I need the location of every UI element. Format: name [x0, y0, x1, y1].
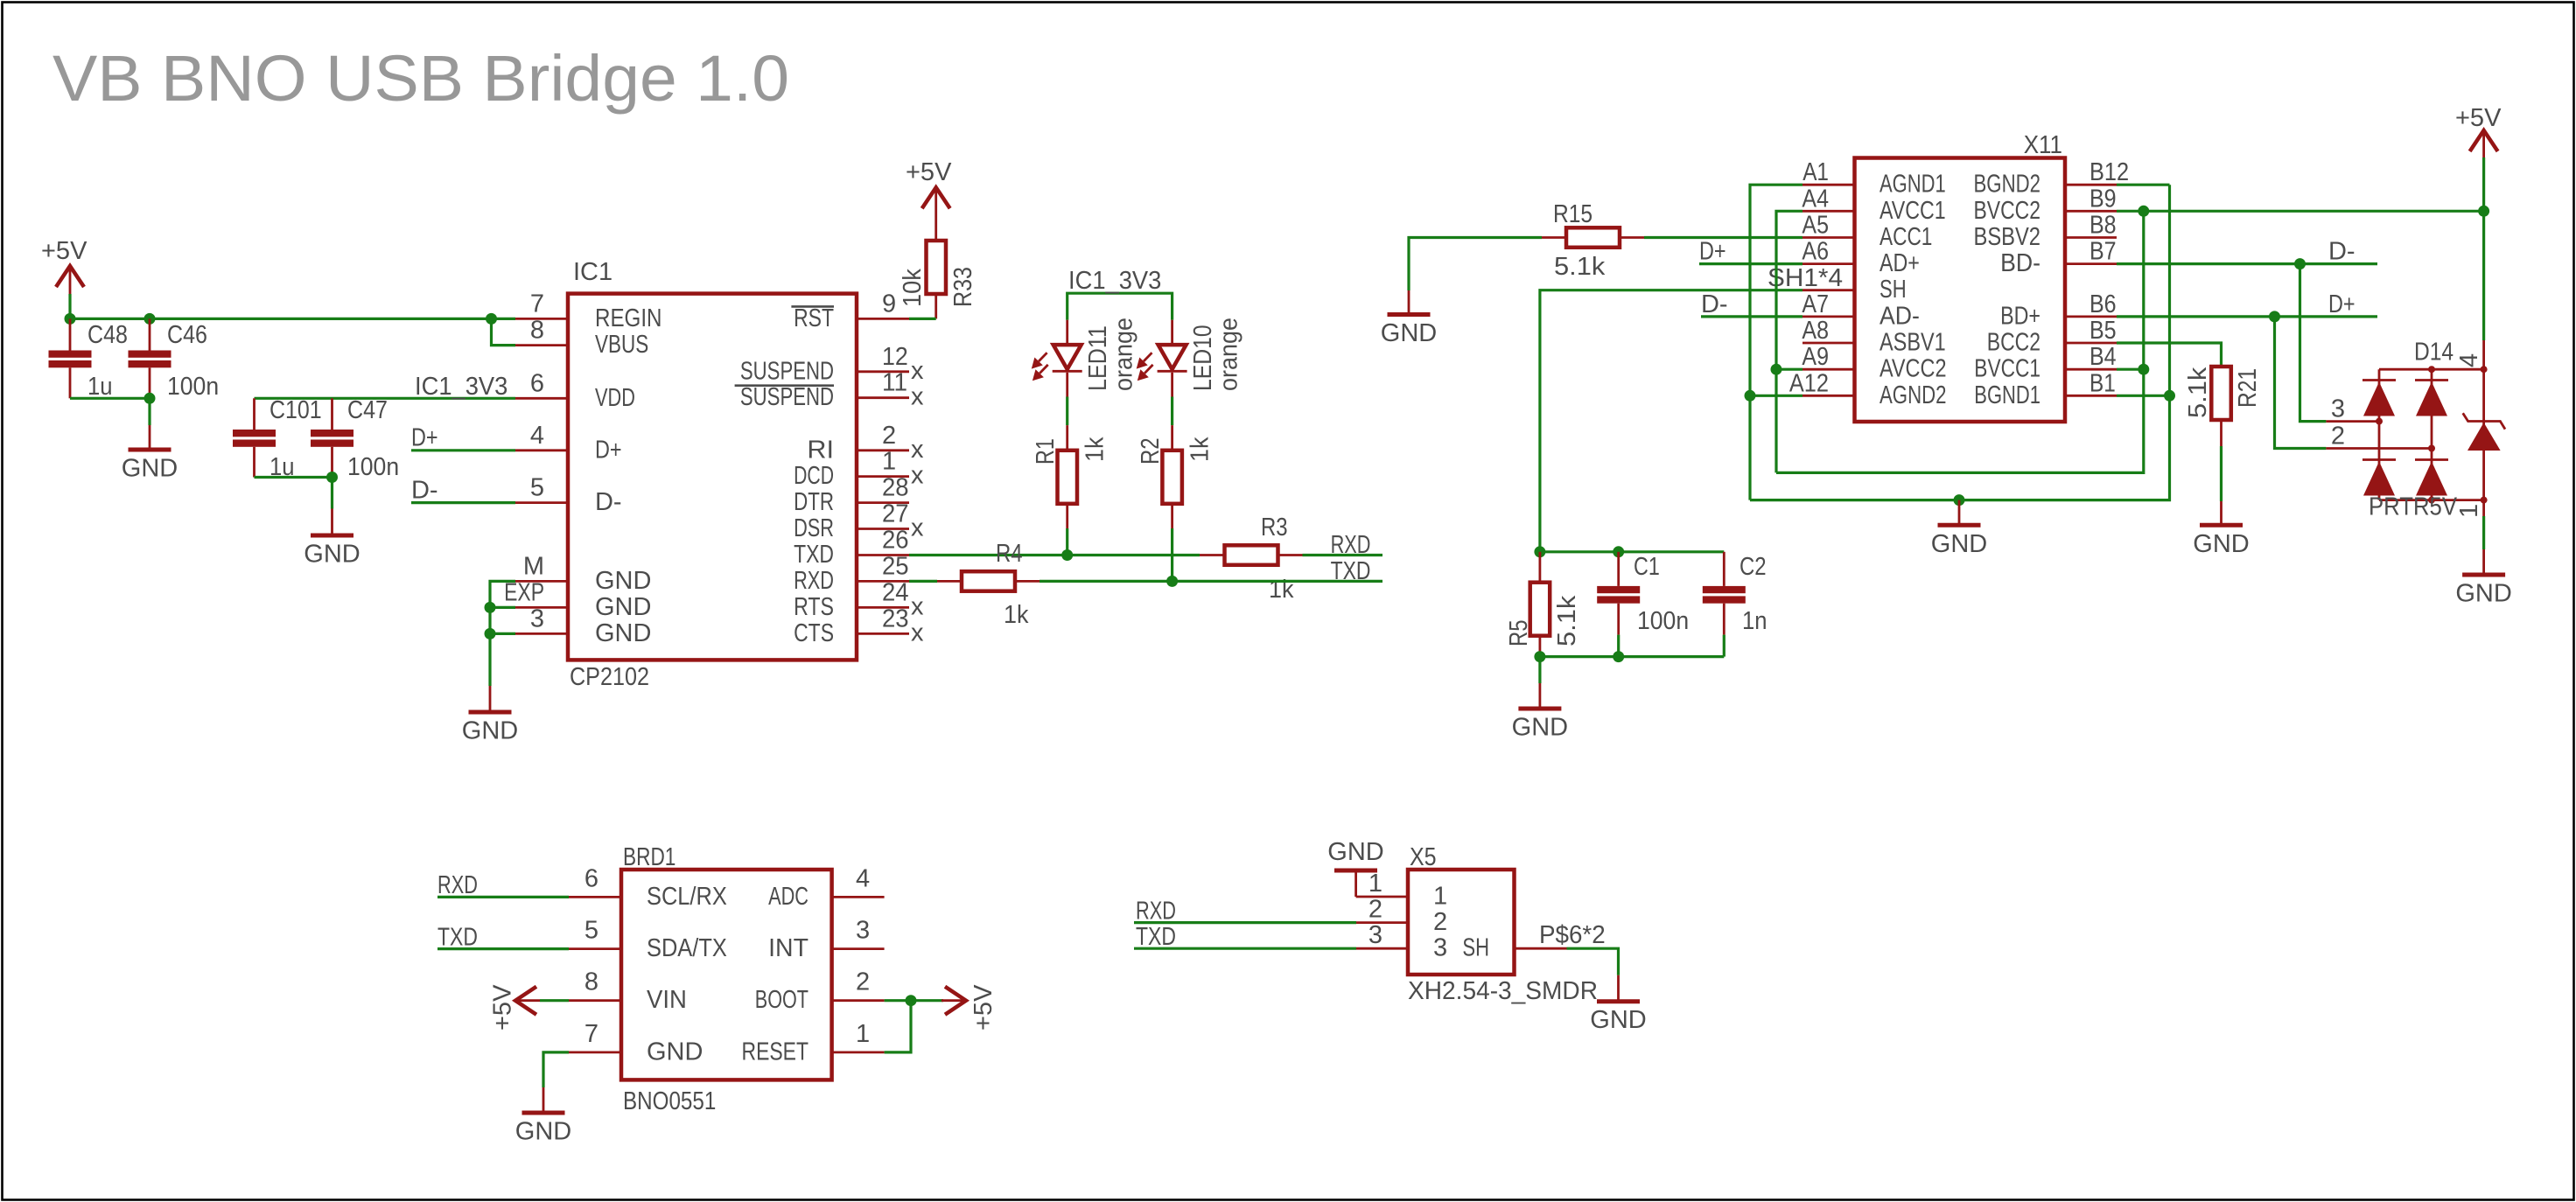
wire GND EXP pin — [490, 606, 515, 609]
svg-text:3: 3 — [856, 917, 870, 945]
svg-text:GND: GND — [122, 455, 178, 483]
svg-text:A7: A7 — [1802, 290, 1829, 318]
BRD1 pin 4 ADC — [832, 896, 885, 898]
svg-text:GND: GND — [647, 1038, 703, 1066]
svg-text:x: x — [911, 383, 924, 411]
IC1 pin 2 RI — [857, 449, 909, 451]
wire D+ stub — [1699, 262, 1802, 265]
wire TXD to SDA/TX — [437, 947, 569, 950]
svg-text:x: x — [911, 436, 924, 464]
svg-text:2: 2 — [882, 422, 896, 450]
svg-text:REGIN: REGIN — [595, 304, 662, 332]
svg-text:C48: C48 — [87, 321, 128, 349]
LED LED11 orange — [1066, 320, 1068, 345]
svg-text:SH1*4: SH1*4 — [1767, 264, 1843, 292]
IC1 pin 7 REGIN — [515, 318, 568, 320]
resistor R33 10k — [927, 241, 947, 294]
resistor R5 5.1k — [1539, 552, 1542, 583]
+5V supply at R33 — [922, 187, 950, 208]
svg-text:SH: SH — [1879, 276, 1907, 304]
svg-text:R21: R21 — [2234, 368, 2262, 408]
svg-text:BD+: BD+ — [2000, 302, 2040, 330]
junction B9/VBUS rail — [2138, 206, 2149, 217]
wire VBUS rail — [1776, 211, 2144, 472]
wire D+ to D14 pin2 — [2275, 317, 2327, 449]
svg-text:GND: GND — [1381, 319, 1437, 347]
svg-text:D+: D+ — [411, 424, 438, 452]
wire +5V to C48 node — [68, 294, 71, 318]
ground under C46 — [148, 398, 150, 425]
junction B1 — [2164, 390, 2175, 402]
X11 pin A7 AD- — [1802, 315, 1855, 318]
svg-text:D14: D14 — [2414, 339, 2453, 367]
svg-text:A5: A5 — [1802, 212, 1829, 240]
IC1 pin 25 RXD — [857, 580, 909, 583]
svg-text:D+: D+ — [1699, 238, 1726, 266]
wire SH to GND — [1567, 948, 1619, 975]
svg-text:BNO0551: BNO0551 — [623, 1087, 716, 1115]
svg-text:AGND1: AGND1 — [1879, 171, 1946, 199]
svg-text:8: 8 — [530, 317, 544, 345]
+5V supply (top right) — [2470, 130, 2498, 151]
wire RXD pin25 to R4 — [909, 580, 937, 583]
capacitor C48 1u — [69, 318, 72, 350]
ground under X11 — [1958, 500, 1961, 526]
BRD1 pin 7 GND — [569, 1052, 621, 1054]
wire C48/C46 bottom — [70, 397, 150, 400]
wire GND pin BRD1 — [543, 1052, 569, 1087]
svg-text:3: 3 — [530, 604, 544, 632]
wire C101/C47 bottom — [255, 476, 332, 479]
diode array D14 PRTR5V — [2482, 340, 2485, 369]
junction A9 — [1771, 364, 1782, 375]
svg-text:AVCC2: AVCC2 — [1879, 355, 1947, 383]
svg-text:BRD1: BRD1 — [623, 843, 675, 871]
wire RST to R33 — [934, 294, 937, 318]
svg-text:IC1_3V3: IC1_3V3 — [415, 373, 507, 401]
BRD1 pin 8 VIN — [569, 999, 621, 1002]
wire R2 to RXD net — [1171, 504, 1173, 528]
svg-text:+5V: +5V — [969, 984, 997, 1031]
svg-text:6: 6 — [530, 369, 544, 397]
svg-text:5: 5 — [530, 474, 544, 502]
svg-text:D-: D- — [411, 477, 438, 505]
wire GND rail — [1750, 185, 2170, 500]
svg-text:A12: A12 — [1789, 369, 1829, 397]
IC1 pin 26 TXD — [857, 554, 909, 556]
svg-text:GND: GND — [595, 619, 651, 647]
wire R15 right to A5 — [1644, 236, 1802, 239]
svg-text:R2: R2 — [1137, 437, 1165, 465]
junction R5 top — [1534, 546, 1545, 557]
wire R1 to TXD net — [1066, 504, 1068, 528]
svg-text:1k: 1k — [1081, 437, 1109, 462]
svg-text:12: 12 — [882, 343, 908, 371]
svg-text:CTS: CTS — [794, 619, 834, 647]
IC1 pin 3 GND — [515, 632, 568, 635]
svg-text:A1: A1 — [1802, 158, 1829, 186]
svg-text:2: 2 — [856, 968, 870, 996]
IC1 pin M GND — [515, 580, 568, 583]
svg-text:VB BNO USB Bridge 1.0: VB BNO USB Bridge 1.0 — [52, 42, 789, 115]
wire +5V rail to IC1 REGIN — [70, 318, 515, 320]
svg-text:5.1k: 5.1k — [1553, 595, 1581, 646]
svg-text:RI: RI — [807, 436, 834, 464]
ground under D14 — [2482, 500, 2485, 516]
svg-text:RST: RST — [794, 304, 834, 332]
junction D+ — [2269, 311, 2280, 322]
svg-text:x: x — [911, 357, 924, 385]
wire RESET to BOOT — [885, 1001, 911, 1052]
svg-text:TXD: TXD — [1331, 557, 1371, 585]
wire B5 to R21 — [2117, 343, 2222, 367]
svg-text:orange: orange — [1215, 318, 1243, 391]
svg-text:DSR: DSR — [794, 514, 834, 542]
svg-text:X5: X5 — [1410, 843, 1437, 871]
svg-text:A6: A6 — [1802, 238, 1829, 266]
svg-text:GND: GND — [1590, 1006, 1646, 1034]
IC1 pin 6 VDD — [515, 397, 568, 400]
X11 pin A8 ASBV1 — [1802, 342, 1855, 345]
capacitor C46 100n — [149, 318, 151, 350]
svg-text:C47: C47 — [347, 396, 388, 424]
wire RXD to X5 pin 2 — [1134, 921, 1356, 924]
wire R5/C1/C2 top rail — [1540, 550, 1724, 553]
svg-text:D+: D+ — [595, 436, 622, 464]
junction R2/RXD-net — [1166, 576, 1178, 587]
wire A12 — [1750, 395, 1802, 397]
junction EXP — [485, 602, 496, 613]
wire D- stub — [1701, 315, 1802, 318]
svg-text:3: 3 — [1368, 921, 1382, 949]
capacitor C47 100n — [331, 398, 333, 430]
svg-text:4: 4 — [2455, 353, 2483, 367]
op-amp U IC1 box CP2102 — [568, 294, 857, 660]
wire R4 to TXD label — [1039, 580, 1382, 583]
resistor R1 1k — [1058, 451, 1078, 504]
resistor R15 5.1k — [1542, 236, 1566, 239]
svg-text:6: 6 — [584, 864, 598, 892]
svg-text:SUSPEND: SUSPEND — [740, 383, 834, 411]
svg-text:AGND2: AGND2 — [1879, 381, 1947, 409]
svg-text:x: x — [911, 618, 924, 646]
junction pin 3 — [485, 628, 496, 639]
svg-text:x: x — [911, 462, 924, 490]
X11 pin A9 AVCC2 — [1802, 368, 1855, 371]
connector X5 box — [1408, 870, 1515, 975]
resistor R21 5.1k — [2211, 367, 2231, 420]
svg-text:LED11: LED11 — [1084, 325, 1112, 391]
svg-text:C1: C1 — [1634, 553, 1660, 581]
IC1 pin 9 RST — [857, 318, 909, 320]
svg-text:25: 25 — [882, 552, 909, 580]
svg-text:D-: D- — [595, 488, 622, 516]
svg-text:+5V: +5V — [41, 237, 87, 265]
ground under IC1 — [489, 686, 492, 712]
svg-text:9: 9 — [882, 290, 896, 318]
capacitor C2 1n — [1723, 552, 1725, 586]
svg-text:1: 1 — [1433, 883, 1447, 911]
svg-text:GND: GND — [2455, 580, 2511, 608]
wire R3 to RXD label — [1303, 554, 1383, 556]
BRD1 pin 6 SCL/RX — [569, 896, 621, 898]
svg-text:RXD: RXD — [437, 871, 478, 899]
D14 pin 3 lead — [2326, 420, 2379, 423]
svg-text:B9: B9 — [2089, 185, 2117, 213]
svg-text:7: 7 — [530, 290, 544, 318]
wire LED10 to R2 — [1171, 397, 1173, 426]
svg-text:DTR: DTR — [794, 488, 834, 516]
svg-text:GND: GND — [1327, 838, 1383, 866]
svg-text:7: 7 — [584, 1020, 598, 1048]
svg-text:B6: B6 — [2089, 290, 2117, 318]
wire R21 to GND — [2220, 446, 2222, 501]
wire A4 net — [1776, 211, 1802, 472]
svg-text:100n: 100n — [347, 453, 399, 481]
svg-text:TXD: TXD — [437, 923, 478, 951]
svg-text:VBUS: VBUS — [595, 331, 648, 359]
wire B6 D+ net — [2117, 315, 2377, 318]
X11 pin B7 BD- — [2065, 262, 2117, 265]
svg-text:28: 28 — [882, 474, 909, 502]
diode D14 top-right — [2415, 379, 2448, 381]
junction at C46 top — [144, 313, 156, 325]
svg-text:GND: GND — [1931, 530, 1987, 558]
svg-text:C2: C2 — [1739, 553, 1767, 581]
svg-text:11: 11 — [882, 369, 907, 397]
X11 pin B9 BVCC2 — [2065, 210, 2117, 213]
svg-text:RXD: RXD — [794, 567, 834, 595]
svg-text:EXP: EXP — [504, 578, 544, 606]
svg-text:GND: GND — [2193, 530, 2249, 558]
resistor R3 1k — [1200, 554, 1224, 556]
svg-text:VDD: VDD — [595, 384, 635, 412]
svg-text:100n: 100n — [167, 373, 219, 401]
svg-text:RESET: RESET — [742, 1038, 809, 1066]
IC1 pin 8 VBUS — [515, 344, 568, 346]
wire VBUS drop — [492, 318, 516, 345]
diode D14 top-left — [2362, 379, 2396, 381]
svg-text:SH: SH — [1462, 934, 1489, 962]
ground under R21 — [2220, 501, 2222, 525]
svg-text:D+: D+ — [2328, 290, 2355, 318]
wire TXD to X5 pin 3 — [1134, 947, 1356, 950]
junction R1/TXD — [1061, 549, 1073, 561]
svg-text:A8: A8 — [1802, 317, 1829, 345]
svg-text:BOOT: BOOT — [755, 986, 808, 1014]
svg-text:ACC1: ACC1 — [1879, 223, 1932, 251]
IC1 pin EXP GND — [515, 606, 568, 609]
svg-text:10k: 10k — [899, 269, 927, 307]
wire GND pin 3 — [490, 632, 515, 635]
junction R5 bottom — [1534, 651, 1545, 662]
X11 pin A4 AVCC1 — [1802, 210, 1855, 213]
wire +5V down to D14 pin4 — [2482, 157, 2485, 340]
wire D- to D14 pin3 — [2300, 264, 2327, 422]
+5V supply symbol (top left) — [56, 266, 84, 287]
wire B9 +5V net — [2117, 210, 2484, 213]
svg-text:TXD: TXD — [794, 541, 834, 569]
svg-text:ADC: ADC — [768, 883, 808, 911]
svg-text:BVCC2: BVCC2 — [1974, 197, 2041, 225]
IC1 pin 11 SUSPEND — [857, 396, 909, 399]
wire R15 left to GND — [1409, 238, 1542, 291]
svg-text:R1: R1 — [1032, 438, 1060, 465]
svg-text:27: 27 — [882, 500, 909, 528]
svg-text:D-: D- — [1701, 290, 1728, 318]
junction B9/+5V — [2478, 206, 2489, 217]
svg-text:1: 1 — [882, 448, 896, 476]
ground under R5 — [1538, 657, 1541, 683]
svg-text:B5: B5 — [2089, 317, 2117, 345]
connector X11 box — [1855, 158, 2066, 423]
svg-text:C101: C101 — [269, 396, 322, 424]
wire IC1_3V3 LED rail — [1067, 293, 1172, 320]
wire D- — [411, 501, 515, 504]
svg-text:GND: GND — [304, 541, 360, 569]
svg-text:IC1: IC1 — [573, 258, 612, 286]
IC1 pin 5 D- — [515, 501, 568, 504]
ground under BRD1 — [542, 1087, 545, 1113]
BRD1 pin 2 BOOT — [832, 999, 885, 1002]
svg-text:1: 1 — [2455, 504, 2483, 518]
svg-text:XH2.54-3_SMDR: XH2.54-3_SMDR — [1408, 977, 1598, 1005]
svg-text:26: 26 — [882, 527, 909, 555]
svg-text:BD-: BD- — [2000, 249, 2040, 277]
wire B7 D- net — [2117, 262, 2377, 265]
svg-text:2: 2 — [1368, 896, 1382, 924]
capacitor C101 1u — [253, 398, 255, 430]
wire A1 net — [1750, 185, 1802, 500]
svg-text:SDA/TX: SDA/TX — [647, 934, 727, 962]
wire TXD pin26 to R3 — [909, 554, 1200, 556]
svg-text:RXD: RXD — [1136, 898, 1176, 926]
IC1 pin 1 DCD — [857, 475, 909, 478]
svg-text:CP2102: CP2102 — [570, 663, 649, 691]
svg-text:LED10: LED10 — [1189, 325, 1217, 391]
module BRD1 box — [621, 870, 832, 1080]
svg-text:GND: GND — [1512, 714, 1568, 742]
wire A9 — [1776, 368, 1802, 371]
svg-text:2: 2 — [2331, 423, 2345, 451]
svg-text:+5V: +5V — [489, 984, 517, 1031]
svg-text:BCC2: BCC2 — [1987, 329, 2040, 357]
svg-text:R15: R15 — [1553, 200, 1592, 228]
ground above X5 pin 1 — [1334, 869, 1377, 873]
wire BOOT to +5V — [885, 999, 943, 1002]
svg-text:TXD: TXD — [1136, 923, 1176, 951]
junction C1 bottom — [1613, 651, 1624, 662]
svg-text:B1: B1 — [2089, 369, 2116, 397]
svg-text:1u: 1u — [87, 373, 113, 401]
wire LED11 to R1 — [1066, 397, 1068, 426]
X5 pin 2 — [1356, 921, 1408, 924]
svg-text:+5V: +5V — [2455, 104, 2502, 132]
svg-text:ASBV1: ASBV1 — [1879, 329, 1946, 357]
IC1 pin 27 DSR — [857, 528, 909, 530]
X11 pin B8 BSBV2 — [2065, 236, 2117, 239]
svg-text:GND: GND — [515, 1118, 571, 1146]
wire VIN — [540, 999, 569, 1002]
svg-text:5: 5 — [584, 917, 598, 945]
svg-text:RTS: RTS — [794, 593, 834, 621]
IC1 pin 24 RTS — [857, 606, 909, 609]
IC1 pin 4 D+ — [515, 449, 568, 451]
svg-text:1: 1 — [1368, 870, 1382, 898]
svg-text:B8: B8 — [2089, 212, 2117, 240]
junction REGIN/VBUS — [486, 313, 497, 325]
svg-text:SUSPEND: SUSPEND — [740, 357, 834, 385]
svg-text:C46: C46 — [167, 321, 207, 349]
svg-text:4: 4 — [530, 422, 544, 450]
svg-text:B7: B7 — [2089, 238, 2117, 266]
svg-text:1k: 1k — [1186, 437, 1214, 462]
svg-text:1k: 1k — [1004, 601, 1029, 629]
junction B4 — [2138, 364, 2149, 375]
svg-text:SCL/RX: SCL/RX — [647, 883, 727, 911]
svg-text:R5: R5 — [1505, 619, 1533, 646]
svg-text:AD+: AD+ — [1879, 249, 1920, 277]
IC1 pin 12 SUSPEND — [857, 370, 909, 373]
junction C47 bottom — [326, 472, 338, 483]
X11 pin SH1*4 SH — [1802, 289, 1855, 291]
zener diode D14 — [2463, 413, 2505, 429]
svg-text:GND: GND — [462, 717, 518, 745]
IC1 pin 23 CTS — [857, 632, 909, 635]
X5 pin SH — [1515, 947, 1567, 950]
resistor R2 1k — [1162, 451, 1182, 504]
svg-text:B4: B4 — [2089, 343, 2117, 371]
wire B1 — [2117, 395, 2170, 397]
svg-text:24: 24 — [882, 578, 909, 606]
svg-text:1n: 1n — [1742, 607, 1767, 635]
junction BOOT/RESET — [906, 995, 917, 1006]
wire D+ — [411, 449, 515, 451]
wire IC1_3V3 to VDD — [255, 397, 516, 400]
BRD1 pin 1 RESET — [832, 1052, 885, 1054]
svg-text:1k: 1k — [1269, 576, 1294, 604]
svg-text:x: x — [911, 514, 924, 542]
ground right of X5 — [1617, 975, 1620, 1002]
svg-text:8: 8 — [584, 968, 598, 996]
X11 pin B5 BCC2 — [2065, 342, 2117, 345]
svg-text:B12: B12 — [2089, 158, 2129, 186]
X11 pin B6 BD+ — [2065, 315, 2117, 318]
svg-text:orange: orange — [1110, 318, 1138, 391]
diode D14 bottom-left — [2362, 458, 2396, 461]
svg-text:AVCC1: AVCC1 — [1879, 197, 1946, 225]
svg-text:RXD: RXD — [1331, 531, 1371, 559]
junction D- — [2294, 258, 2306, 269]
svg-text:BGND2: BGND2 — [1974, 171, 2041, 199]
svg-text:INT: INT — [768, 934, 808, 962]
svg-text:5.1k: 5.1k — [1554, 253, 1606, 281]
svg-text:R33: R33 — [949, 267, 977, 307]
svg-text:X11: X11 — [2024, 131, 2062, 159]
junction A12 — [1745, 390, 1756, 402]
svg-text:DCD: DCD — [794, 462, 834, 490]
svg-text:IC1_3V3: IC1_3V3 — [1068, 267, 1161, 295]
svg-text:2: 2 — [1433, 908, 1447, 936]
svg-text:3: 3 — [1433, 934, 1447, 962]
junction at C48 top — [65, 313, 76, 325]
svg-text:PRTR5V: PRTR5V — [2369, 493, 2458, 521]
svg-text:GND: GND — [595, 567, 651, 595]
svg-text:D-: D- — [2328, 238, 2355, 266]
wire RXD to SCL/RX — [437, 896, 569, 898]
wire B12 to GND rail — [2117, 184, 2170, 186]
diode D14 bottom-right — [2415, 458, 2448, 461]
